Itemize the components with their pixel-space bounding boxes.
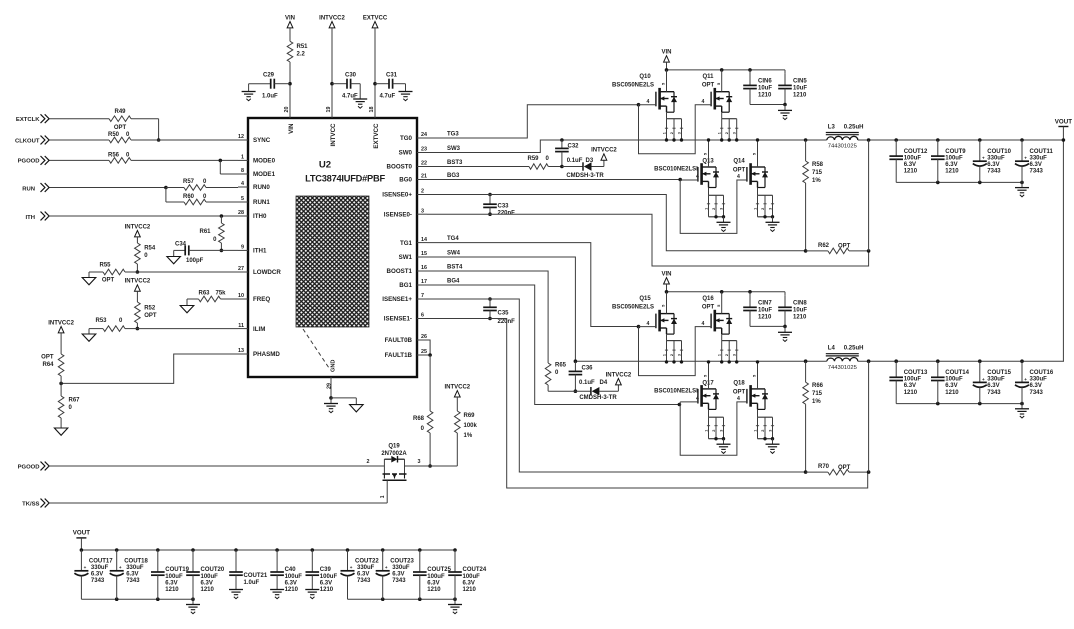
resistor R69 100k 1% [456,397,458,411]
wire gate bypass Q10->Q11 [637,103,641,107]
svg-text:ITH0: ITH0 [253,213,267,220]
svg-text:6.3V: 6.3V [945,383,957,389]
svg-text:1210: 1210 [758,92,772,98]
svg-text:SW4: SW4 [447,250,461,256]
svg-text:TG0: TG0 [400,135,413,142]
capacitor COUT12 [894,138,898,142]
svg-text:BSC050NE2LS: BSC050NE2LS [612,304,654,310]
svg-text:+: + [84,565,87,570]
svg-text:COUT14: COUT14 [945,370,969,376]
svg-text:BST3: BST3 [447,160,463,166]
svg-text:1: 1 [704,430,708,432]
capacitor COUT14 [936,359,940,363]
inductor L3 0.25uH 744301025 [826,132,859,134]
svg-text:ITH1: ITH1 [253,248,267,255]
svg-text:TG4: TG4 [447,236,459,242]
svg-text:4: 4 [737,396,740,402]
svg-text:1.0uF: 1.0uF [244,580,260,586]
capacitor C32 0.1uF (boost ch0) [560,138,564,142]
svg-text:R53: R53 [96,318,108,324]
capacitor CIN5 10uF 1210 [784,70,786,74]
wire R50 to U2 SYNC pin12 [131,139,238,141]
svg-text:COUT24: COUT24 [463,567,487,573]
capacitor COUT9 [936,138,940,142]
capacitor COUT13 [894,359,898,363]
svg-text:2: 2 [670,132,674,134]
resistor R55 OPT [89,271,103,273]
svg-text:0.25uH: 0.25uH [844,125,864,131]
svg-text:2: 2 [670,354,674,356]
svg-text:4: 4 [737,174,740,180]
svg-text:CMDSH-3-TR: CMDSH-3-TR [579,395,617,401]
svg-text:LTC3874IUFD#PBF: LTC3874IUFD#PBF [305,174,385,184]
svg-text:6.3V: 6.3V [165,580,177,586]
svg-text:1.0uF: 1.0uF [262,94,278,100]
svg-text:INTVCC2: INTVCC2 [319,15,345,21]
wire U2 PHASMD pin13 to R64/R67 node [61,354,238,383]
svg-text:24: 24 [421,132,427,138]
ground at C30 [353,98,367,100]
svg-text:EXTVCC: EXTVCC [373,123,380,149]
wire VOUT to bottom cap bank rail [80,538,82,550]
svg-text:Q18: Q18 [733,380,745,386]
svg-text:1210: 1210 [945,390,959,396]
wire gate bypass Q17->Q18 [680,402,747,455]
svg-text:INTVCC2: INTVCC2 [125,224,151,230]
svg-text:330uF: 330uF [1030,377,1048,383]
svg-text:R65: R65 [555,363,567,369]
wire C29 to ground [248,84,250,92]
svg-text:8: 8 [241,168,244,174]
svg-text:OPT: OPT [838,465,851,471]
svg-text:+: + [1024,156,1027,161]
svg-text:R67: R67 [69,398,81,404]
svg-text:COUT16: COUT16 [1030,370,1054,376]
wire R52 junction to U2 ILIM pin11 [137,328,238,330]
svg-text:TK/SS: TK/SS [22,501,39,507]
svg-text:COUT9: COUT9 [945,149,966,155]
svg-text:6.3V: 6.3V [1030,383,1042,389]
svg-text:5: 5 [241,196,244,202]
svg-text:1%: 1% [464,433,473,439]
svg-text:16: 16 [421,265,427,271]
resistor R67 0 [60,383,62,396]
capacitor COUT22 [346,548,350,552]
svg-text:C29: C29 [263,73,275,79]
svg-text:3: 3 [719,208,723,210]
svg-text:4.7uF: 4.7uF [380,94,396,100]
resistor R70 OPT [806,471,828,473]
svg-text:R60: R60 [183,194,195,200]
svg-text:4: 4 [241,181,244,187]
wire gate Q15 [639,326,656,328]
svg-text:CIN7: CIN7 [758,300,772,306]
svg-text:7343: 7343 [1030,390,1044,396]
U2 left pin stubs + numbers + names [238,134,281,358]
capacitor COUT16 [1020,359,1024,363]
svg-text:12: 12 [238,134,244,140]
wire EXTCLK to R49 [50,118,110,120]
svg-text:1%: 1% [812,399,821,405]
svg-text:100uF: 100uF [904,377,922,383]
svg-text:C34: C34 [175,242,187,248]
svg-text:ISENSE0+: ISENSE0+ [382,192,412,199]
wire PGOOD to Q19 [50,465,382,467]
svg-text:Q15: Q15 [639,296,651,302]
svg-text:COUT23: COUT23 [390,558,414,564]
resistor R50 0 [109,137,131,143]
svg-text:6.3V: 6.3V [285,580,297,586]
wire FAULT0B/FAULT1B net to R68 [427,340,430,355]
svg-text:100uF: 100uF [904,155,922,161]
svg-text:0.1uF: 0.1uF [567,158,583,164]
svg-text:14: 14 [421,237,427,243]
svg-text:7: 7 [421,293,424,299]
svg-text:2: 2 [725,354,729,356]
svg-text:4: 4 [696,174,699,180]
svg-text:BOOST1: BOOST1 [387,268,413,275]
svg-text:GND: GND [331,360,337,372]
svg-text:CMDSH-3-TR: CMDSH-3-TR [566,173,604,179]
svg-text:OPT: OPT [702,304,715,310]
svg-text:100uF: 100uF [285,574,303,580]
U2 GND dashed lead from pad [303,329,329,368]
svg-text:330uF: 330uF [987,377,1005,383]
svg-text:OPT: OPT [144,313,157,319]
wire CLKOUT to R50 [50,139,110,141]
resistor R61 0 (ITH0 to ITH1) [220,216,222,223]
svg-text:C31: C31 [386,73,398,79]
wire R55 to ground [88,272,90,278]
capacitor C39 [311,548,315,552]
svg-text:ISENSE1+: ISENSE1+ [382,296,412,303]
svg-text:R62: R62 [818,243,830,249]
svg-text:VIN: VIN [661,50,671,56]
capacitor CIN8 10uF 1210 [784,292,786,296]
svg-text:1210: 1210 [201,587,215,593]
wire SW0/SW3 net to switch rail [427,140,827,153]
svg-text:1: 1 [753,208,757,210]
wire bottom bank ground rail seg2 [348,598,456,600]
svg-text:COUT10: COUT10 [987,149,1011,155]
svg-text:Q11: Q11 [702,74,714,80]
svg-text:6.3V: 6.3V [91,571,103,577]
ground at C34 (triangle) [167,257,181,264]
svg-text:744301025: 744301025 [828,144,857,150]
capacitor C34 100pF [174,249,186,251]
svg-text:3: 3 [768,208,772,210]
svg-text:+: + [385,565,388,570]
svg-text:INTVCC2: INTVCC2 [606,372,632,378]
wire pin29 to triangle ground [331,397,356,399]
svg-text:R63: R63 [199,291,211,297]
svg-text:COUT11: COUT11 [1030,149,1054,155]
wire VIN rail (Q10) [667,69,786,71]
svg-text:6.3V: 6.3V [357,571,369,577]
capacitor COUT23 [381,548,385,552]
ground at CIN5 [778,109,792,111]
svg-text:R59: R59 [528,156,540,162]
svg-text:100uF: 100uF [201,574,219,580]
svg-text:1210: 1210 [904,390,918,396]
svg-text:R50: R50 [108,132,120,138]
wire gate Q10 [639,104,656,106]
svg-text:13: 13 [238,348,244,354]
svg-text:2: 2 [712,430,716,432]
svg-text:U2: U2 [319,160,331,171]
svg-text:1: 1 [380,495,386,498]
svg-text:BSC050NE2LS: BSC050NE2LS [612,82,654,88]
svg-text:COUT20: COUT20 [201,567,225,573]
wire R61 to U2 ITH1 pin9 [221,249,238,251]
U2 right pin stubs + numbers + names [382,132,427,359]
svg-text:EXTCLK: EXTCLK [16,117,40,123]
power flag INTVCC2 (R64) [58,327,64,333]
capacitor C29 1.0uF [249,83,271,85]
diode D3 CMDSH-3-TR [562,166,583,168]
diode D4 CMDSH-3-TR [548,390,591,392]
svg-text:27: 27 [238,266,244,272]
capacitor C33 220nF [488,193,492,197]
U2 exposed pad (hatched) [296,196,369,327]
wire C31 to ground [405,84,407,92]
wire MODE0 junction to U2 MODE1 pin8 [219,160,221,174]
svg-text:1210: 1210 [904,169,918,175]
svg-text:BG3: BG3 [447,173,460,179]
svg-text:4: 4 [702,99,705,105]
svg-text:3: 3 [733,354,737,356]
svg-text:10uF: 10uF [793,85,807,91]
svg-text:7343: 7343 [357,578,371,584]
svg-text:COUT19: COUT19 [165,567,189,573]
wire R49 to CLKOUT junction [131,118,159,120]
wire gate Q17 [680,401,698,403]
wire Q19 drain to R68/R69 node [408,465,457,467]
svg-text:VOUT: VOUT [73,530,90,537]
svg-text:OPT: OPT [41,355,54,361]
wire R54 junction to U2 LOWDCR pin27 [137,271,238,273]
node VOUT (top right) [1058,126,1068,128]
svg-text:EXTVCC: EXTVCC [363,15,388,21]
svg-text:C36: C36 [582,366,594,372]
svg-text:18: 18 [369,107,375,113]
svg-text:BST4: BST4 [447,264,463,270]
svg-text:2: 2 [367,459,370,465]
ground at U2 pin29 (triangle) [350,405,364,412]
svg-text:R54: R54 [144,246,156,252]
svg-text:10: 10 [238,293,244,299]
svg-text:6.3V: 6.3V [987,383,999,389]
resistor R59 0 [427,166,529,168]
ground at C29 [242,91,256,93]
ground at C39 [305,589,319,591]
svg-text:COUT25: COUT25 [427,567,451,573]
ground at U2 pin 29 (earth) [330,398,332,404]
wire COUT bottom rail (COUT12..) [896,181,1022,183]
wire inductor out to rail/R62 [858,139,1064,141]
svg-text:3: 3 [677,132,681,134]
svg-text:1210: 1210 [793,92,807,98]
inductor L4 0.25uH 744301025 [826,353,859,355]
svg-text:100uF: 100uF [320,574,338,580]
IC U2 LTC3874IUFD#PBF body [248,118,417,377]
svg-text:330uF: 330uF [987,155,1005,161]
ground at CIN8 [778,331,792,333]
svg-text:19: 19 [326,107,332,113]
U2 top pin stubs + numbers + names [284,106,380,149]
svg-text:R69: R69 [464,413,476,419]
wire VOUT vertical joining both rails [1062,127,1064,362]
svg-text:VIN: VIN [285,15,295,21]
svg-text:PGOOD: PGOOD [18,464,40,470]
wire VIN rail (Q15) [667,291,786,293]
svg-text:CLKOUT: CLKOUT [15,138,40,144]
svg-text:RUN1: RUN1 [253,199,270,206]
svg-text:7343: 7343 [987,390,1001,396]
svg-text:CIN6: CIN6 [758,78,772,84]
svg-text:R52: R52 [144,306,156,312]
svg-text:INTVCC2: INTVCC2 [591,148,617,154]
svg-text:COUT21: COUT21 [244,573,268,579]
power flag INTVCC2 (R52) [135,285,141,291]
svg-text:15: 15 [421,251,427,257]
svg-text:6: 6 [421,313,424,319]
resistor R68 0 [429,355,431,411]
ground at C31 [399,91,413,93]
capacitor CIN6 10uF 1210 [749,70,751,86]
svg-text:10uF: 10uF [793,307,807,313]
svg-text:VIN: VIN [288,123,295,134]
svg-text:3: 3 [768,430,772,432]
wire TG1/TG4 net [427,243,638,327]
power flag VIN (top) [287,22,293,28]
svg-text:D4: D4 [600,380,608,386]
svg-text:25: 25 [421,349,427,355]
svg-text:COUT22: COUT22 [355,558,379,564]
svg-text:7343: 7343 [1030,169,1044,175]
svg-text:330uF: 330uF [91,565,109,571]
svg-text:MODE1: MODE1 [253,171,276,178]
svg-text:RUN0: RUN0 [253,184,270,191]
svg-text:6.3V: 6.3V [320,580,332,586]
svg-text:TG3: TG3 [447,131,459,137]
svg-text:23: 23 [421,147,427,153]
svg-text:COUT13: COUT13 [904,370,928,376]
ground at R55 (triangle) [82,278,96,285]
wire ISENSE0+ net [427,195,806,251]
svg-text:4: 4 [702,321,705,327]
svg-text:100uF: 100uF [945,377,963,383]
svg-text:2: 2 [725,132,729,134]
capacitor COUT21 [234,548,238,552]
svg-text:Q10: Q10 [639,74,651,80]
svg-text:1210: 1210 [285,587,299,593]
capacitor COUT18 [115,548,119,552]
wire SW1/SW4 net to ch1 switch rail [427,257,827,361]
wire R56 to U2 MODE0 pin1 [131,159,238,161]
resistor R66 715 1% [805,361,807,382]
svg-text:11: 11 [238,323,244,329]
svg-text:COUT18: COUT18 [124,558,148,564]
ground at R63 (triangle) [180,306,194,313]
wire CIN bottom rail (CIN6/CIN5) [750,104,785,106]
svg-text:22: 22 [421,161,427,167]
svg-text:Q16: Q16 [702,296,714,302]
wire PGOOD to R56 [50,159,110,161]
wire C34 to ground [173,250,175,256]
svg-text:+: + [982,377,985,382]
capacitor COUT15 [978,359,982,363]
power flag VIN (Q15) [664,278,670,284]
svg-text:R68: R68 [413,416,425,422]
wire R53 to ground [88,329,90,334]
wire INTVCC2 to U2 INTVCC pin19 [331,28,333,106]
resistor R65 0 [547,361,549,363]
ground at COUT11 [1015,187,1029,189]
svg-text:1: 1 [718,132,722,134]
wire TK/SS to Q19 gate [50,502,388,504]
svg-text:7343: 7343 [987,169,1001,175]
svg-text:VIN: VIN [661,271,671,277]
svg-text:7343: 7343 [392,578,406,584]
svg-text:715: 715 [812,391,823,397]
svg-text:ILIM: ILIM [253,326,265,333]
wire ITH to U2 ITH0 pin28 [50,215,239,217]
capacitor COUT10 [978,138,982,142]
svg-text:1210: 1210 [320,587,334,593]
wire RUN to junction [50,187,166,189]
svg-text:6.3V: 6.3V [392,571,404,577]
svg-text:OPT: OPT [838,244,851,250]
svg-text:1: 1 [241,155,244,161]
capacitor C30 4.7uF [332,83,347,85]
capacitor C40 [275,548,279,552]
svg-text:3: 3 [677,354,681,356]
ground at COUT20 (bank seg1) [186,604,200,606]
svg-text:100uF: 100uF [945,155,963,161]
svg-text:2: 2 [712,208,716,210]
svg-text:6.3V: 6.3V [904,162,916,168]
svg-text:1: 1 [662,354,666,356]
wire bottom bank ground rail seg1 [81,598,193,600]
svg-text:Q14: Q14 [733,159,745,165]
power flag INTVCC2 (D4) [617,385,619,391]
svg-text:OPT: OPT [702,82,715,88]
svg-text:OPT: OPT [733,389,746,395]
wire RUN junction down to R60 [165,188,167,203]
svg-text:4: 4 [647,99,650,105]
wire C30 to ground [359,84,361,99]
svg-text:9: 9 [241,245,244,251]
svg-text:ITH: ITH [26,215,36,221]
ground at COUT21 [229,589,243,591]
svg-text:INTVCC: INTVCC [330,123,337,147]
svg-text:2.2: 2.2 [297,52,306,58]
svg-text:R70: R70 [818,464,830,470]
svg-text:Q19: Q19 [388,443,400,449]
svg-text:1: 1 [718,354,722,356]
svg-text:1210: 1210 [165,587,179,593]
resistor R57 0 [166,187,184,189]
ground at R67 (triangle) [54,428,67,435]
svg-text:100uF: 100uF [463,574,481,580]
svg-text:6.3V: 6.3V [427,580,439,586]
svg-text:OPT: OPT [114,125,127,131]
wire switch rail to inductor region dots [804,138,808,142]
wire R51 to U2 VIN pin20 [289,62,291,106]
svg-text:R56: R56 [108,152,120,158]
svg-text:C32: C32 [568,144,580,150]
